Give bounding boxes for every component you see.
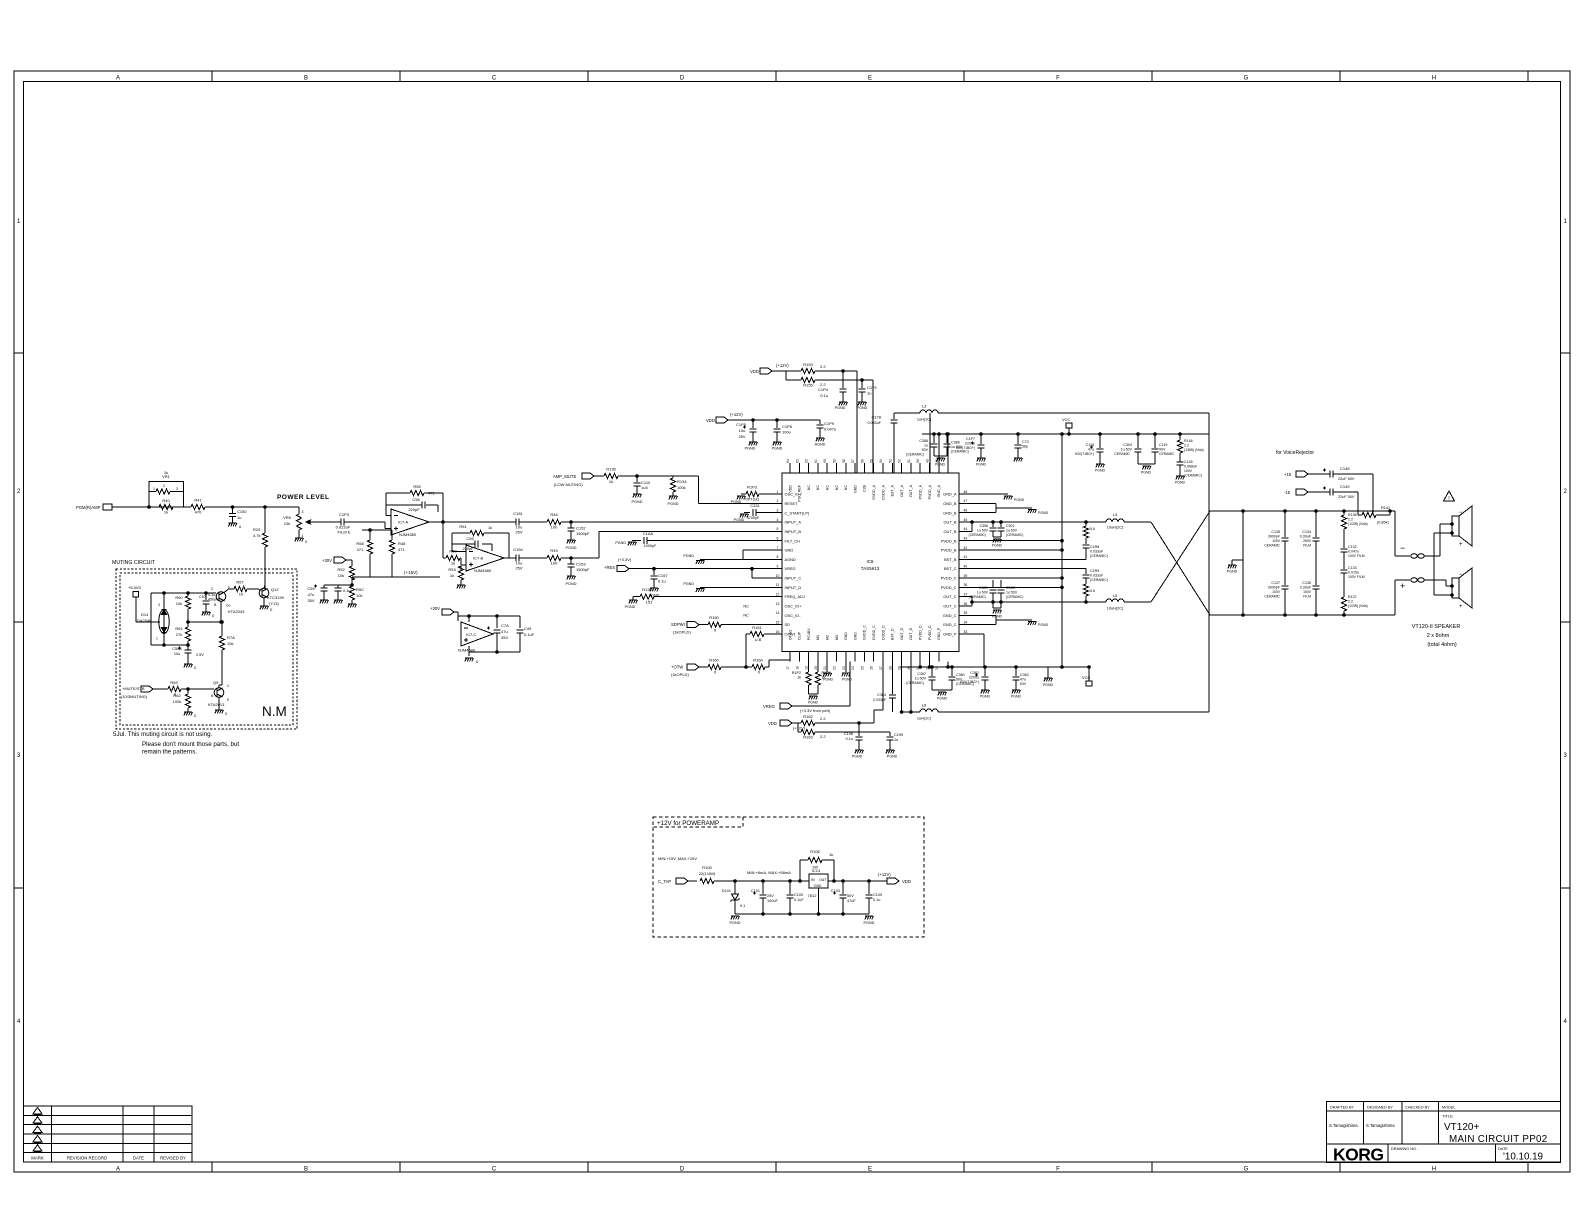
wire to SP2 minus (1446, 580, 1453, 587)
svg-text:OUT: OUT (819, 878, 827, 882)
svg-text:VT120+: VT120+ (1444, 1122, 1479, 1133)
capacitor C7A 47u 35V (487, 616, 509, 652)
ground PGND at C363 (1011, 690, 1022, 699)
svg-text:9: 9 (777, 564, 779, 568)
svg-text:R137: R137 (1348, 595, 1357, 599)
svg-text:3: 3 (17, 753, 21, 759)
svg-text:PGND: PGND (734, 518, 745, 522)
svg-text:R106: R106 (810, 849, 820, 854)
svg-text:INPUT_D: INPUT_D (785, 585, 802, 590)
svg-text:1: 1 (302, 534, 304, 538)
svg-text:C1AA: C1AA (643, 531, 654, 536)
ground at C7B (334, 600, 343, 603)
terminal OTW (671, 664, 708, 677)
svg-text:0.033uF: 0.033uF (1090, 574, 1104, 578)
wire OTW up to IC bottom left pin (769, 660, 790, 667)
capacitor C1P4 0.1u (818, 371, 847, 402)
svg-text:VREG: VREG (763, 704, 775, 709)
capacitor C367 1u 50V (906, 666, 935, 690)
feedback capacitor C55 220pF (452, 536, 492, 551)
row numbers 1-4 (17, 219, 1568, 1025)
svg-text:C153: C153 (576, 562, 586, 567)
wire output minus (1395, 511, 1410, 556)
svg-text:G: G (1244, 76, 1249, 82)
ground PGND at C1P1 (857, 402, 868, 410)
svg-text:MODEL: MODEL (1442, 1106, 1456, 1110)
KORG logo (1333, 1145, 1384, 1165)
svg-text:PGND: PGND (1038, 623, 1049, 627)
svg-text:60: 60 (823, 459, 827, 463)
svg-text:FREQ_ADJ: FREQ_ADJ (785, 594, 805, 599)
capacitor C137 3900pF (1264, 581, 1288, 615)
svg-text:63V(71BG+): 63V(71BG+) (956, 446, 975, 450)
svg-text:DVDD_A: DVDD_A (881, 484, 885, 499)
capacitor C59 47u 35V (307, 585, 352, 604)
svg-text:M2: M2 (826, 635, 830, 640)
svg-text:+: + (1459, 604, 1463, 610)
powerbox ground rail (735, 913, 869, 916)
svg-text:4: 4 (1564, 1019, 1568, 1025)
svg-text:R61: R61 (175, 626, 183, 631)
capacitor C57 0.1u 450pF (199, 593, 219, 612)
svg-text:OUT_B: OUT_B (944, 520, 957, 525)
svg-text:GND: GND (785, 548, 794, 553)
svg-text:D: D (305, 540, 308, 544)
svg-text:0.068uF: 0.068uF (1184, 465, 1198, 469)
svg-text:OUT_A: OUT_A (900, 484, 904, 497)
svg-text:A: A (116, 76, 120, 82)
svg-text:1u 50V: 1u 50V (1121, 448, 1133, 452)
ground PGND at C153 (566, 576, 577, 586)
ground PGND powerbox left (730, 916, 741, 925)
svg-text:39: 39 (964, 574, 968, 578)
svg-text:22(1/4W): 22(1/4W) (699, 871, 716, 876)
svg-text:(CERAMIC): (CERAMIC) (1090, 554, 1108, 558)
svg-text:20: 20 (814, 666, 818, 670)
svg-text:E: E (227, 698, 230, 702)
svg-text:VDD: VDD (768, 721, 777, 726)
svg-text:C135: C135 (1271, 530, 1280, 534)
wire GND_P riser bottom (947, 662, 950, 669)
resistor R40 1k (159, 498, 191, 515)
svg-text:471: 471 (428, 491, 435, 496)
svg-text:E: E (868, 76, 872, 82)
svg-text:INPUT_C: INPUT_C (785, 576, 802, 581)
svg-text:12: 12 (776, 592, 780, 596)
capacitor C1P9 0.047u (817, 420, 837, 438)
svg-text:PGND: PGND (857, 406, 868, 410)
muting note line1 (113, 731, 213, 738)
resistor R136 2.2 1/2W (1341, 511, 1367, 548)
svg-text:100: 100 (551, 561, 558, 566)
svg-text:10uH(2C): 10uH(2C) (1107, 526, 1124, 530)
svg-text:VDD: VDD (706, 418, 715, 423)
svg-text:PGND: PGND (1141, 471, 1152, 475)
filter bottom rail (1209, 614, 1395, 617)
svg-text:PGND: PGND (887, 755, 898, 759)
svg-text:48: 48 (964, 490, 968, 494)
capacitor C109 0.1u (866, 881, 883, 914)
svg-text:C148: C148 (1340, 466, 1350, 471)
svg-text:46: 46 (964, 508, 968, 512)
svg-text:(+3.3V): (+3.3V) (618, 557, 632, 562)
svg-text:B: B (304, 76, 308, 82)
svg-text:PVDD_D: PVDD_D (919, 625, 923, 640)
title label (1442, 1114, 1453, 1119)
ground PGND on bottom rail (1043, 667, 1054, 687)
capacitor C101 100uF 25V (751, 881, 779, 914)
svg-text:2.2: 2.2 (820, 364, 826, 369)
svg-text:2.2: 2.2 (820, 716, 826, 721)
svg-text:58: 58 (842, 459, 846, 463)
ground PGND at C1P7 (976, 458, 987, 467)
svg-text:+15: +15 (1284, 472, 1292, 477)
SP1 minus label (1459, 510, 1463, 516)
svg-text:IC7-C: IC7-C (466, 632, 477, 637)
svg-text:OSC_IO-: OSC_IO- (785, 613, 802, 618)
svg-text:25V: 25V (515, 566, 522, 571)
revision table grid (24, 1106, 193, 1162)
capacitor C118 47u 63V (1075, 433, 1103, 464)
min max note (658, 856, 697, 861)
svg-text:56p: 56p (1022, 445, 1028, 449)
svg-text:+30V: +30V (322, 558, 332, 563)
svg-text:AGND: AGND (785, 557, 796, 562)
wire node to R29 (264, 507, 266, 533)
resistor R135 1k (604, 467, 673, 485)
svg-text:R105: R105 (702, 865, 712, 870)
svg-text:DRAFTED BY: DRAFTED BY (1330, 1106, 1355, 1110)
svg-text:DVDD_C: DVDD_C (872, 625, 876, 640)
svg-text:(CERAMIC): (CERAMIC) (906, 681, 924, 685)
terminal +30V (322, 557, 352, 566)
svg-text:GND: GND (814, 884, 822, 888)
svg-text:100k: 100k (173, 699, 182, 704)
svg-text:+30V: +30V (430, 606, 440, 611)
svg-text:1: 1 (156, 637, 158, 641)
svg-text:PGND: PGND (730, 921, 741, 925)
terminal SDPWI (671, 622, 708, 635)
svg-text:(+12V): (+12V) (776, 363, 789, 368)
wire C supply rail (458, 615, 520, 621)
svg-text:C388: C388 (951, 441, 960, 445)
SP1 plus label (1459, 542, 1463, 548)
svg-text:M3: M3 (835, 635, 839, 640)
wire AMP_MUTE to IC (673, 476, 699, 503)
svg-text:PVDD_B: PVDD_B (941, 538, 957, 543)
wire A out down to B in (443, 522, 446, 558)
svg-text:19: 19 (805, 666, 809, 670)
svg-text:PVDD_C: PVDD_C (941, 585, 957, 590)
+12V POWERAMP dashed box (653, 817, 924, 937)
svg-text:PVDD_B: PVDD_B (941, 548, 957, 553)
connector pair minus (1411, 554, 1440, 558)
svg-text:R57: R57 (236, 580, 244, 585)
svg-text:NC: NC (743, 603, 749, 608)
terminal VREG bottom (763, 662, 850, 714)
svg-text:PGND: PGND (808, 701, 819, 705)
svg-text:(CERAMIC): (CERAMIC) (969, 533, 986, 537)
svg-text:50V: 50V (922, 448, 929, 452)
svg-text:PSU_REF: PSU_REF (798, 484, 802, 501)
svg-text:1k: 1k (450, 573, 454, 578)
wire rail to R52 node (351, 577, 353, 580)
svg-text:POWER LEVEL: POWER LEVEL (277, 494, 329, 501)
resistor R59 0 (168, 680, 214, 697)
wire C ground rail (469, 651, 520, 656)
ground PGND at R1P3 (731, 496, 746, 504)
snubber R186 5.6 C1R8 0.033uF (1083, 521, 1108, 560)
svg-text:2: 2 (777, 499, 779, 503)
wire voice rejector join (1358, 474, 1373, 515)
svg-text:B: B (214, 603, 217, 607)
svg-text:C_START(LP): C_START(LP) (785, 510, 810, 515)
svg-text:R155: R155 (803, 383, 813, 388)
date label (1498, 1147, 1508, 1151)
svg-text:MIN:+15V, MAX:+25V: MIN:+15V, MAX:+25V (658, 856, 697, 861)
svg-text:CERAMIC: CERAMIC (1114, 452, 1130, 456)
svg-text:35V: 35V (307, 598, 314, 603)
wire C356 C301 join (992, 537, 1003, 548)
svg-text:C198: C198 (844, 732, 853, 736)
svg-text:53: 53 (888, 459, 892, 463)
ground PGND at C1AA (615, 541, 636, 545)
svg-text:INPUT_A: INPUT_A (785, 520, 802, 525)
ground PGND at R1P2 (808, 694, 819, 705)
svg-text:R62: R62 (173, 693, 181, 698)
svg-text:REVISED BY: REVISED BY (160, 1156, 186, 1161)
svg-text:25: 25 (860, 666, 864, 670)
resistor R150 0 (708, 615, 782, 633)
svg-text:GND_C: GND_C (943, 622, 957, 627)
capacitor C100 0.1uF (787, 881, 805, 914)
svg-text:M1: M1 (816, 635, 820, 640)
svg-text:45: 45 (964, 518, 968, 522)
svg-text:52: 52 (898, 459, 902, 463)
svg-text:63V(71BG+): 63V(71BG+) (960, 680, 979, 684)
svg-text:PGND: PGND (980, 695, 991, 699)
wire PVDD_C pins to VCC bus (959, 577, 1063, 589)
svg-text:7: 7 (777, 546, 779, 550)
svg-text:DATE: DATE (1498, 1147, 1508, 1151)
svg-text:DVDD_D: DVDD_D (881, 625, 885, 640)
capacitor C7C 56p (1015, 433, 1030, 458)
svg-text:1uH(1C): 1uH(1C) (917, 717, 932, 721)
svg-text:DA204K: DA204K (137, 618, 152, 623)
svg-text:100V FILM: 100V FILM (1348, 575, 1365, 579)
svg-text:R1P3: R1P3 (747, 485, 758, 490)
svg-text:MAIN CIRCUIT PP02: MAIN CIRCUIT PP02 (1449, 1134, 1548, 1145)
svg-text:C1P4: C1P4 (818, 387, 829, 392)
model title VT120+ (1444, 1122, 1479, 1133)
svg-text:PVDD_D: PVDD_D (928, 625, 932, 640)
plus label out (1400, 581, 1405, 591)
capacitor C364 0.033uF on BST_D (873, 662, 896, 713)
svg-text:0: 0 (714, 670, 717, 675)
svg-text:PGND: PGND (745, 447, 756, 451)
svg-text:0: 0 (714, 628, 717, 633)
resistor R134 100k (670, 476, 687, 496)
svg-text:A: A (116, 1167, 120, 1173)
svg-text:100: 100 (551, 525, 558, 530)
svg-text:50V: 50V (1159, 448, 1166, 452)
svg-text:47: 47 (964, 499, 968, 503)
dual diode D14 DA204K (137, 603, 169, 641)
svg-text:(+15V): (+15V) (404, 570, 418, 575)
svg-text:1u: 1u (867, 391, 871, 396)
warning triangle (1444, 491, 1455, 502)
svg-text:C145: C145 (1184, 460, 1193, 464)
svg-text:+: + (1400, 581, 1405, 591)
power amp IC8 TAS5613 body (782, 473, 959, 652)
wire RESET pin (699, 502, 782, 504)
svg-text:C1P3: C1P3 (339, 512, 350, 517)
ground at C59 (320, 600, 329, 603)
svg-text:PGND: PGND (842, 678, 853, 682)
svg-text:C_TAP: C_TAP (658, 879, 671, 884)
resistor R141 0.85k (1362, 506, 1391, 525)
svg-text:NC: NC (743, 613, 749, 618)
title block header labels (1330, 1106, 1456, 1110)
terminal VDD left (706, 412, 820, 423)
svg-text:C: C (492, 1167, 497, 1173)
regulator IC13 7812 (808, 868, 887, 914)
wire L8 rail bottom (902, 711, 1209, 713)
svg-text:-15: -15 (1284, 490, 1291, 495)
svg-text:33: 33 (964, 630, 968, 634)
ground at C7C (1014, 458, 1023, 461)
svg-text:3: 3 (176, 487, 178, 491)
svg-text:BST_B: BST_B (944, 557, 957, 562)
resistor R160 0 (708, 658, 747, 675)
capacitor C132 0.047u (1341, 545, 1365, 569)
svg-text:PGND: PGND (1011, 695, 1022, 699)
svg-text:0.1u: 0.1u (820, 393, 828, 398)
svg-text:C136: C136 (1302, 581, 1311, 585)
resistor R60 10k (175, 593, 190, 623)
svg-text:PGND: PGND (615, 541, 626, 545)
svg-text:(10/3MUTING): (10/3MUTING) (121, 694, 148, 699)
terminal VDD bottom (768, 720, 806, 731)
op-amp IC7-C NJM4580 (458, 616, 493, 656)
terminal VDD top (750, 363, 789, 374)
svg-text:5.6: 5.6 (1090, 527, 1095, 531)
wire C367 C360 join gnd (932, 690, 952, 701)
capacitor C7B 0.1u (335, 585, 351, 600)
svg-text:CHECKED BY: CHECKED BY (1405, 1106, 1430, 1110)
svg-text:TAS5613: TAS5613 (861, 566, 880, 571)
svg-text:SD: SD (785, 622, 791, 627)
svg-text:51: 51 (907, 459, 911, 463)
svg-text:3900pF: 3900pF (1268, 586, 1281, 590)
inductor L3 1uH (917, 404, 938, 422)
svg-text:4700pF: 4700pF (747, 516, 760, 520)
svg-text:0.39uF: 0.39uF (1300, 535, 1312, 539)
wire INPUT_C pin (751, 567, 782, 578)
svg-text:5Jul. This muting circuit: 5Jul. This muting circuit is not using. (113, 731, 213, 738)
svg-text:DRAWING NO.: DRAWING NO. (1391, 1147, 1417, 1151)
svg-text:PGND: PGND (1014, 498, 1025, 502)
svg-text:10k: 10k (338, 573, 344, 578)
svg-text:CERAMIC: CERAMIC (1264, 544, 1280, 548)
svg-text:100V: 100V (1272, 539, 1281, 543)
NC pin 13 label (743, 603, 749, 608)
terminal +5.5V0 (128, 585, 160, 622)
capacitor C356 1u 50V (969, 522, 997, 537)
capacitor C149 22uF 50V (1323, 484, 1358, 499)
svg-text:PC4BV: PC4BV (807, 628, 811, 640)
svg-text:C304: C304 (1123, 443, 1132, 447)
svg-text:25V: 25V (738, 434, 745, 439)
svg-text:(1/8W) (N4a): (1/8W) (N4a) (1184, 448, 1204, 452)
minus label out (1400, 543, 1405, 553)
svg-text:D: D (680, 76, 685, 82)
svg-text:0.1u: 0.1u (873, 898, 880, 902)
speaker caption (1412, 624, 1461, 648)
svg-text:40: 40 (964, 564, 968, 568)
svg-text:Go: Go (226, 604, 231, 608)
terminal -15 (1284, 489, 1330, 495)
POWER LEVEL label (277, 494, 329, 501)
svg-text:2200u: 2200u (965, 442, 975, 446)
svg-text:4: 4 (17, 1019, 21, 1025)
potentiometer VR6 10k (283, 507, 312, 538)
svg-text:+OTW: +OTW (671, 665, 683, 670)
svg-text:VDD: VDD (750, 369, 759, 374)
svg-text:C1P7: C1P7 (966, 437, 975, 441)
svg-text:1u: 1u (924, 444, 928, 448)
svg-text:NC: NC (816, 485, 820, 491)
inductor L8 1uH (917, 703, 938, 721)
svg-text:2200u: 2200u (969, 676, 979, 680)
resistor R62 100k (173, 689, 191, 712)
svg-text:VCC: VCC (1062, 417, 1071, 422)
svg-text:15: 15 (776, 620, 780, 624)
resistor R5C 10k (349, 586, 364, 604)
svg-text:(+12V): (+12V) (793, 726, 806, 731)
resistor R164 0 (746, 658, 769, 675)
ground PGND powerbox right (864, 916, 875, 925)
svg-text:21: 21 (823, 666, 827, 670)
svg-text:C7A: C7A (501, 623, 509, 628)
svg-text:C149: C149 (1340, 484, 1350, 489)
svg-text:C364: C364 (877, 693, 886, 697)
feedback resistor R51 1k (452, 524, 509, 558)
svg-text:DATE: DATE (133, 1156, 144, 1161)
svg-text:D: D (680, 1167, 685, 1173)
resistor R50 10k (446, 549, 461, 566)
svg-text:INPUT_B: INPUT_B (785, 529, 802, 534)
svg-text:C154: C154 (513, 547, 523, 552)
svg-text:C57: C57 (199, 595, 206, 599)
svg-text:3900pF: 3900pF (1268, 535, 1281, 539)
svg-text:2: 2 (1564, 489, 1568, 495)
svg-text:47u: 47u (1088, 448, 1094, 452)
bottom VCC rail (900, 666, 1089, 668)
svg-text:3: 3 (777, 508, 779, 512)
bias resistor R58 (356, 529, 392, 577)
svg-text:10k: 10k (227, 641, 233, 646)
VCC bus vertical (1061, 433, 1064, 669)
wire GND_B pins join (959, 503, 1032, 512)
svg-text:C49: C49 (524, 626, 532, 631)
svg-text:PGND: PGND (935, 463, 946, 467)
svg-text:GND_P: GND_P (937, 627, 941, 640)
wire into op-amp B (461, 558, 466, 565)
wire C3C1 C3C2 join gnd (992, 602, 1003, 619)
svg-text:PVDD_A: PVDD_A (919, 484, 923, 499)
svg-text:H: H (1432, 1167, 1436, 1173)
